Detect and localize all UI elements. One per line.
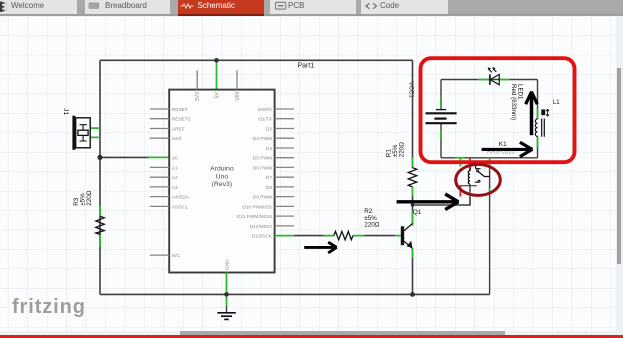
- value label LED1 Red (633nm): [510, 84, 523, 120]
- svg-text:Uno: Uno: [216, 173, 229, 180]
- wire A0: [100, 156, 148, 158]
- tab PCB: [270, 0, 357, 14]
- svg-text:A1: A1: [172, 165, 178, 171]
- svg-text:A3: A3: [172, 185, 178, 191]
- tab Breadboard: [85, 0, 170, 14]
- svg-text:GND: GND: [224, 259, 230, 270]
- wire top rail: [100, 59, 413, 61]
- svg-text:220Ω: 220Ω: [86, 190, 93, 206]
- resistor R2: [334, 231, 353, 239]
- svg-text:D6 PWM: D6 PWM: [253, 165, 272, 171]
- IC Part1 Arduino Uno (Rev3): [150, 70, 294, 294]
- LED LED1: [488, 67, 500, 85]
- value label R1: [385, 142, 405, 158]
- svg-text:220Ω: 220Ω: [364, 222, 380, 229]
- wire collector to relay coil: [413, 197, 471, 205]
- inductor L1: [533, 109, 549, 137]
- svg-text:J1: J1: [62, 108, 69, 115]
- relay K1: [460, 158, 490, 295]
- svg-text:(Rev3): (Rev3): [212, 181, 232, 188]
- svg-text:ioref: ioref: [172, 136, 182, 142]
- svg-text:D13/SCK: D13/SCK: [252, 234, 273, 240]
- wire 5V drop: [216, 60, 218, 89]
- svg-text:A0: A0: [172, 156, 178, 162]
- battery BAT1 loop wires: [441, 80, 538, 158]
- top pin stubs: [197, 70, 237, 89]
- svg-text:D5 PWM: D5 PWM: [253, 156, 272, 162]
- svg-text:D11 PWM/MOSI: D11 PWM/MOSI: [237, 214, 272, 220]
- svg-text:Arduino: Arduino: [210, 166, 234, 173]
- svg-text:A4/SDA: A4/SDA: [172, 195, 190, 201]
- wire bottom rail: [100, 293, 490, 295]
- wire D13/SCK to base: [275, 235, 401, 237]
- annotation arrow right (at Q1/relay wire): [397, 194, 459, 210]
- scrollbars: [616, 16, 623, 335]
- annotation arrow right (at K1): [482, 142, 533, 156]
- svg-text:D12/MISO: D12/MISO: [250, 224, 273, 230]
- wire left rail: [99, 60, 101, 294]
- svg-text:A2: A2: [172, 175, 178, 181]
- svg-text:Part1: Part1: [298, 63, 315, 70]
- svg-text:D9 PWM: D9 PWM: [253, 195, 272, 201]
- svg-text:D3 PWM: D3 PWM: [253, 136, 272, 142]
- svg-text:L1: L1: [553, 100, 560, 106]
- annotation red box: [421, 58, 575, 162]
- pin GND wire: [226, 273, 228, 295]
- svg-text:K1: K1: [499, 141, 507, 148]
- svg-text:D4: D4: [266, 146, 272, 152]
- battery BAT1: [426, 110, 457, 124]
- status red bar: [0, 335, 623, 338]
- annotation arrow up (at L1): [526, 92, 538, 136]
- annotation red ellipse: [456, 164, 501, 195]
- tab Welcome: [0, 0, 77, 14]
- svg-text:5V: 5V: [215, 91, 221, 98]
- svg-text:VCC1: VCC1: [408, 82, 415, 99]
- fritzing logo: [12, 296, 86, 319]
- svg-text:3V3: 3V3: [195, 92, 201, 101]
- resistor R1: [408, 168, 416, 226]
- node junction dots: [97, 58, 415, 297]
- value label Arduino Uno (Rev3): [210, 166, 234, 189]
- svg-text:N/C: N/C: [172, 253, 181, 259]
- svg-text:Red (633nm): Red (633nm): [510, 84, 517, 120]
- wire VCC1 drop: [412, 60, 414, 167]
- svg-text:D8: D8: [266, 185, 272, 191]
- svg-text:220Ω: 220Ω: [398, 142, 405, 158]
- svg-text:D10 PWM/SS: D10 PWM/SS: [242, 204, 272, 210]
- pin labels Arduino: [172, 91, 273, 270]
- svg-text:Q1: Q1: [413, 209, 422, 216]
- svg-text:D1/TX: D1/TX: [258, 117, 272, 123]
- svg-text:D2: D2: [266, 127, 272, 133]
- right pin stubs: [275, 109, 294, 226]
- svg-text:VIN: VIN: [235, 92, 241, 101]
- tab Schematic (active): [178, 0, 264, 14]
- left pin stubs: [150, 109, 169, 255]
- svg-text:D0/RX: D0/RX: [258, 107, 273, 113]
- tab bar: [0, 0, 623, 16]
- value label R2: [364, 208, 380, 229]
- ground: [217, 294, 236, 319]
- svg-text:D7: D7: [266, 175, 272, 181]
- svg-text:AREF: AREF: [172, 127, 185, 133]
- svg-text:A5/SCL: A5/SCL: [172, 204, 189, 210]
- transistor Q1: [401, 224, 413, 295]
- svg-text:RESET2: RESET2: [172, 117, 191, 123]
- svg-text:RESET: RESET: [172, 107, 188, 113]
- value label R3: [73, 190, 93, 206]
- annotation arrow right (at R2 wire): [304, 242, 337, 253]
- piezo J1: [72, 116, 100, 150]
- resistor R3: [96, 206, 104, 247]
- tab Code: [361, 0, 448, 14]
